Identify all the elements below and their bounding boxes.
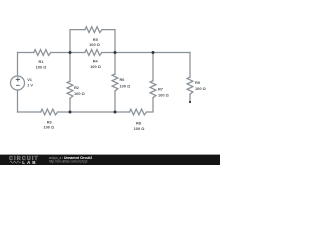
svg-text:R9: R9 xyxy=(195,80,201,85)
svg-text:R1: R1 xyxy=(39,59,45,64)
svg-text:R6: R6 xyxy=(120,77,126,82)
svg-text:100 Ω: 100 Ω xyxy=(90,64,101,69)
svg-text:100 Ω: 100 Ω xyxy=(120,84,131,89)
svg-text:100 Ω: 100 Ω xyxy=(195,86,206,91)
svg-text:R7: R7 xyxy=(158,86,163,91)
svg-text:100 Ω: 100 Ω xyxy=(74,91,85,96)
svg-text:1 V: 1 V xyxy=(27,83,33,88)
svg-text:R3: R3 xyxy=(47,119,53,124)
svg-text:LAB: LAB xyxy=(22,160,37,165)
svg-text:100 Ω: 100 Ω xyxy=(89,42,100,47)
svg-text:V1: V1 xyxy=(27,77,33,82)
svg-text:100 Ω: 100 Ω xyxy=(134,126,145,131)
svg-text:R8: R8 xyxy=(136,121,142,126)
svg-text:100 Ω: 100 Ω xyxy=(36,65,47,70)
svg-text:100 Ω: 100 Ω xyxy=(43,125,54,130)
svg-text:100 Ω: 100 Ω xyxy=(158,93,169,98)
svg-text:http://circuitlab.com/c/q7pj3: http://circuitlab.com/c/q7pj3 xyxy=(49,159,88,163)
svg-text:R2: R2 xyxy=(74,85,80,90)
